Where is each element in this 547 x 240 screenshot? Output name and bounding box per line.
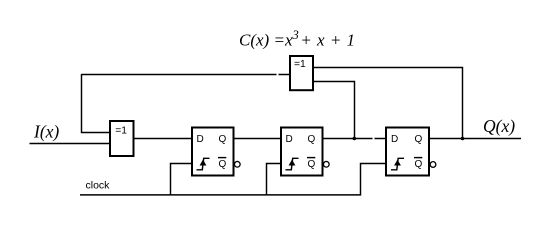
svg-text:Q: Q [219,134,227,145]
svg-text:clock: clock [86,180,111,192]
svg-text:=1: =1 [294,59,306,70]
xor gate U2 (top) box [290,56,313,90]
wire clock distribution line [80,164,386,195]
wire XOR U2 lower-right input from tap node [314,82,355,139]
FF3 clock edge symbol [391,158,404,170]
svg-text:D: D [197,134,204,145]
FF3 Qbar bubble [430,162,436,168]
FF2 clock edge symbol [286,158,299,170]
wire clock branch to FF2 [267,164,282,195]
flip-flop FF2 box [281,128,323,176]
wire feedback top horizontal from XOR U2 output to left vertical [82,74,291,76]
wire FF2 Q to FF3 D [323,138,387,140]
wire I(x) input line [30,143,111,145]
svg-text:Q: Q [219,159,227,170]
svg-text:I(x): I(x) [33,122,59,142]
svg-text:D: D [391,134,398,145]
wire FF3 Q to Q(x) output [430,138,522,140]
FF1 Qbar bubble [234,161,240,167]
wire XOR U1 output to FF1 D input [134,138,193,140]
wire XOR U2 upper-right input from output node [314,68,463,139]
FF2 Qbar bubble [323,161,329,167]
svg-text:Q: Q [415,159,423,170]
svg-text:Q: Q [308,134,316,145]
FF1 clock edge symbol [197,158,210,170]
svg-text:Q: Q [308,159,316,170]
xor gate U1 (left) box [110,121,134,156]
svg-text:=1: =1 [115,126,127,137]
svg-text:D: D [286,134,293,145]
wire feedback left vertical down to XOR U1 upper input [82,74,111,133]
wire clock branch to FF1 [171,164,193,195]
flip-flop FF3 box [386,128,429,176]
flip-flop FF1 box [192,128,234,176]
svg-text:Q(x): Q(x) [483,116,515,136]
wire FF1 Q to FF2 D [234,138,282,140]
junction node tap between FF2 and FF3 [353,137,357,141]
svg-text:Q: Q [415,134,423,145]
junction node on output line [461,137,465,141]
